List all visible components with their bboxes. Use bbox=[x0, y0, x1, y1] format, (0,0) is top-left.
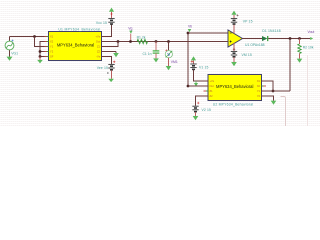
wire junction down to Y1 bbox=[35, 37, 49, 47]
capacitor C1 1n bbox=[142, 42, 159, 59]
wire U2 -Vs to V2 bbox=[196, 96, 209, 106]
wire sqrt feedback down bbox=[289, 39, 291, 92]
wire Z1 feedback bbox=[102, 42, 119, 47]
svg-text:Vcc 15: Vcc 15 bbox=[96, 21, 107, 25]
svg-text:V1 15: V1 15 bbox=[199, 66, 208, 70]
node (voltmeter tap) bbox=[167, 40, 170, 43]
ground (below VG1) bbox=[7, 57, 13, 61]
svg-text:D1 1N4148: D1 1N4148 bbox=[262, 29, 281, 33]
ground arrow down (VM) bbox=[231, 62, 237, 66]
svg-text:MPY634_Behavioral: MPY634_Behavioral bbox=[216, 84, 253, 89]
wire -Vs down to Vee bbox=[102, 57, 112, 65]
ground arrow down (V2) bbox=[193, 116, 199, 120]
wire feedback vertical bbox=[187, 33, 189, 86]
svg-text:VP 15: VP 15 bbox=[243, 20, 253, 24]
node (X1-Y1 tie) bbox=[272, 90, 275, 93]
node (SF junction) bbox=[39, 55, 42, 58]
svg-text:X2: X2 bbox=[257, 84, 261, 88]
left pin stubs bbox=[45, 37, 49, 57]
wire X2 to gnd rail bbox=[40, 42, 49, 57]
svg-text:SF: SF bbox=[50, 55, 54, 59]
svg-text:R2 10k: R2 10k bbox=[303, 46, 314, 50]
node (Z1 feedback tap) bbox=[117, 40, 120, 43]
node (R1 left / Vg tap) bbox=[129, 40, 132, 43]
svg-text:C1 1n: C1 1n bbox=[142, 52, 151, 56]
svg-text:Y1: Y1 bbox=[257, 89, 261, 93]
net Vb marker bbox=[188, 29, 191, 32]
wire Y1 (U2) to Vout vertical bbox=[262, 90, 291, 92]
svg-text:R1 2k: R1 2k bbox=[137, 36, 146, 40]
svg-text:Vb: Vb bbox=[188, 25, 192, 29]
battery VM 15 bbox=[231, 48, 252, 62]
svg-text:Out: Out bbox=[210, 84, 214, 88]
resistor R1 2k bbox=[137, 36, 148, 44]
svg-text:Out: Out bbox=[96, 40, 100, 44]
net Vout marker bbox=[310, 37, 313, 40]
pin connection ticks U1 bbox=[47, 37, 104, 57]
svg-text:Vee 15: Vee 15 bbox=[97, 66, 108, 70]
multiplier U1 MPY634_Behavioral bbox=[45, 27, 106, 60]
multiplier U2 MPY634_Behavioral (mirrored) bbox=[204, 75, 267, 107]
svg-text:U1 MPY634_Behavioral: U1 MPY634_Behavioral bbox=[58, 27, 100, 31]
wire Out net bbox=[102, 41, 229, 43]
node (R2 tap) bbox=[298, 37, 301, 40]
node (junction on input wire) bbox=[33, 35, 36, 38]
svg-text:V2 15: V2 15 bbox=[202, 108, 211, 112]
battery V2 15 bbox=[192, 102, 211, 116]
wire V1 to +Vs (U2) bbox=[194, 70, 209, 81]
ground arrow (U2 supply gnd) bbox=[195, 81, 197, 83]
svg-text:Y1: Y1 bbox=[50, 45, 54, 49]
voltmeter VM1 bbox=[165, 42, 178, 67]
ground (U1 input gnd) bbox=[39, 57, 41, 60]
svg-text:X1: X1 bbox=[257, 79, 261, 83]
svg-text:U1 OPAx188: U1 OPAx188 bbox=[245, 43, 265, 47]
node (feedback bottom) bbox=[187, 85, 190, 88]
power arrow up (Vcc) bbox=[109, 8, 114, 12]
svg-text:Y2: Y2 bbox=[50, 50, 54, 54]
node (Y2 junction) bbox=[39, 50, 42, 53]
ground (U2 Y2) bbox=[271, 101, 277, 105]
ground (R2) bbox=[297, 59, 303, 63]
wire VG1 to X1 bbox=[10, 36, 49, 38]
wire opamp V+ bbox=[233, 24, 235, 33]
node (C1 tap) bbox=[155, 40, 158, 43]
battery VP 15 bbox=[231, 14, 253, 24]
pin connection ticks U2 bbox=[206, 81, 263, 96]
ground (C1) bbox=[153, 58, 159, 62]
ground (VM1) bbox=[166, 66, 172, 70]
ground (Z2) bbox=[113, 53, 119, 57]
svg-text:Y2: Y2 bbox=[257, 94, 261, 98]
page border faint vertical bbox=[307, 55, 309, 126]
wire opamp out to diode bbox=[243, 38, 263, 40]
pin stubs bbox=[204, 81, 267, 96]
power arrow up (V1) bbox=[191, 56, 196, 60]
svg-text:U2 MPY634_Behavioral: U2 MPY634_Behavioral bbox=[213, 103, 254, 107]
wire feedback to opamp bbox=[188, 32, 228, 34]
svg-text:+Vs: +Vs bbox=[210, 79, 215, 83]
node (sqrt feedback tap) bbox=[289, 37, 292, 40]
battery V1 15 bbox=[190, 60, 208, 69]
battery Vcc 15 bbox=[96, 12, 115, 25]
svg-text:VG1: VG1 bbox=[11, 51, 18, 55]
node (feedback top) bbox=[187, 32, 190, 35]
right pin stubs bbox=[102, 37, 106, 57]
pin labels bbox=[50, 35, 101, 59]
wire Z2 to gnd bbox=[102, 51, 117, 53]
wire diode to Vout bbox=[268, 38, 310, 40]
svg-text:VM 15: VM 15 bbox=[242, 53, 252, 57]
wire feedback to U2 out bbox=[188, 85, 208, 87]
net Vg marker bbox=[129, 31, 132, 34]
svg-text:MPY634_Behavioral: MPY634_Behavioral bbox=[57, 43, 94, 48]
voltage source VG1 bbox=[5, 37, 18, 57]
wire Vg stub bbox=[130, 34, 132, 42]
pin labels bbox=[210, 79, 261, 98]
wire Y2 to gnd rail bbox=[40, 51, 49, 53]
svg-text:+Vs: +Vs bbox=[95, 35, 100, 39]
ground arrow down (Vee) bbox=[108, 79, 114, 82]
svg-text:VM1: VM1 bbox=[171, 60, 178, 64]
diode D1 1N4148 bbox=[262, 29, 281, 41]
svg-text:Vout: Vout bbox=[308, 30, 315, 34]
wire Y2 (U2) to gnd bbox=[262, 96, 274, 101]
op-amp U1 OPAx188 bbox=[228, 30, 265, 47]
power arrow up (VP) bbox=[231, 11, 236, 15]
svg-text:X2: X2 bbox=[50, 40, 54, 44]
battery Vee 15 bbox=[97, 61, 116, 79]
wire X1 (U2) to feedback node bbox=[262, 81, 274, 91]
svg-text:X1: X1 bbox=[50, 35, 54, 39]
svg-text:Vg: Vg bbox=[128, 27, 132, 31]
wire SF to gnd rail bbox=[40, 56, 49, 58]
wire +Vs up to Vcc bbox=[102, 24, 112, 36]
resistor R2 10k bbox=[298, 39, 314, 59]
page border vertical right-bottom bbox=[281, 97, 286, 127]
wire opamp V- bbox=[233, 43, 235, 51]
